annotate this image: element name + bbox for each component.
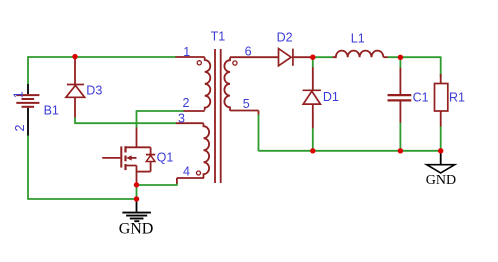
svg-text:L1: L1 bbox=[351, 31, 365, 45]
svg-text:5: 5 bbox=[243, 97, 250, 111]
svg-text:2: 2 bbox=[13, 125, 27, 132]
svg-text:D2: D2 bbox=[277, 30, 293, 44]
svg-text:B1: B1 bbox=[44, 104, 59, 118]
svg-text:D1: D1 bbox=[323, 90, 339, 104]
svg-text:2: 2 bbox=[183, 96, 190, 110]
svg-text:6: 6 bbox=[245, 45, 252, 59]
svg-text:4: 4 bbox=[183, 165, 190, 179]
svg-text:R1: R1 bbox=[449, 91, 465, 105]
svg-text:Q1: Q1 bbox=[157, 151, 174, 165]
svg-text:GND: GND bbox=[426, 173, 456, 188]
svg-text:1: 1 bbox=[12, 91, 26, 98]
svg-text:3: 3 bbox=[178, 111, 185, 125]
svg-text:C1: C1 bbox=[413, 91, 429, 105]
svg-text:GND: GND bbox=[119, 221, 154, 238]
svg-text:1: 1 bbox=[183, 45, 190, 59]
svg-text:D3: D3 bbox=[86, 84, 102, 98]
svg-text:T1: T1 bbox=[211, 30, 226, 44]
